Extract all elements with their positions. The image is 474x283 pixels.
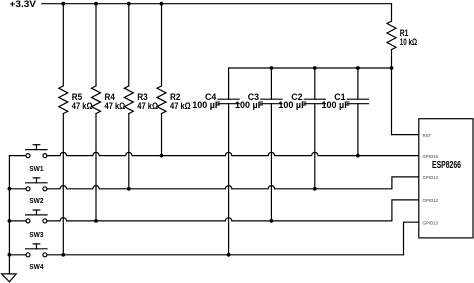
svg-text:SW2: SW2 — [29, 196, 43, 205]
svg-text:SW3: SW3 — [29, 230, 43, 239]
svg-text:47 kΩ: 47 kΩ — [105, 101, 126, 111]
svg-text:GPIO14: GPIO14 — [423, 175, 439, 180]
svg-text:47 kΩ: 47 kΩ — [170, 101, 191, 111]
svg-text:100 µF: 100 µF — [278, 100, 307, 110]
svg-text:100 µF: 100 µF — [235, 100, 264, 110]
svg-text:47 kΩ: 47 kΩ — [137, 101, 158, 111]
svg-text:10 kΩ: 10 kΩ — [400, 37, 417, 47]
svg-text:SW4: SW4 — [29, 262, 44, 271]
svg-text:47 kΩ: 47 kΩ — [72, 101, 93, 111]
svg-text:+3.3V: +3.3V — [10, 0, 37, 10]
svg-text:100 µF: 100 µF — [322, 100, 351, 110]
svg-text:100 µF: 100 µF — [192, 100, 221, 110]
svg-text:GPIO16: GPIO16 — [423, 154, 439, 159]
svg-text:GPIO12: GPIO12 — [423, 198, 439, 203]
svg-text:ESP8266: ESP8266 — [432, 160, 461, 171]
svg-text:SW1: SW1 — [29, 164, 43, 173]
svg-text:GPIO13: GPIO13 — [423, 221, 439, 226]
svg-text:RST: RST — [423, 133, 432, 138]
